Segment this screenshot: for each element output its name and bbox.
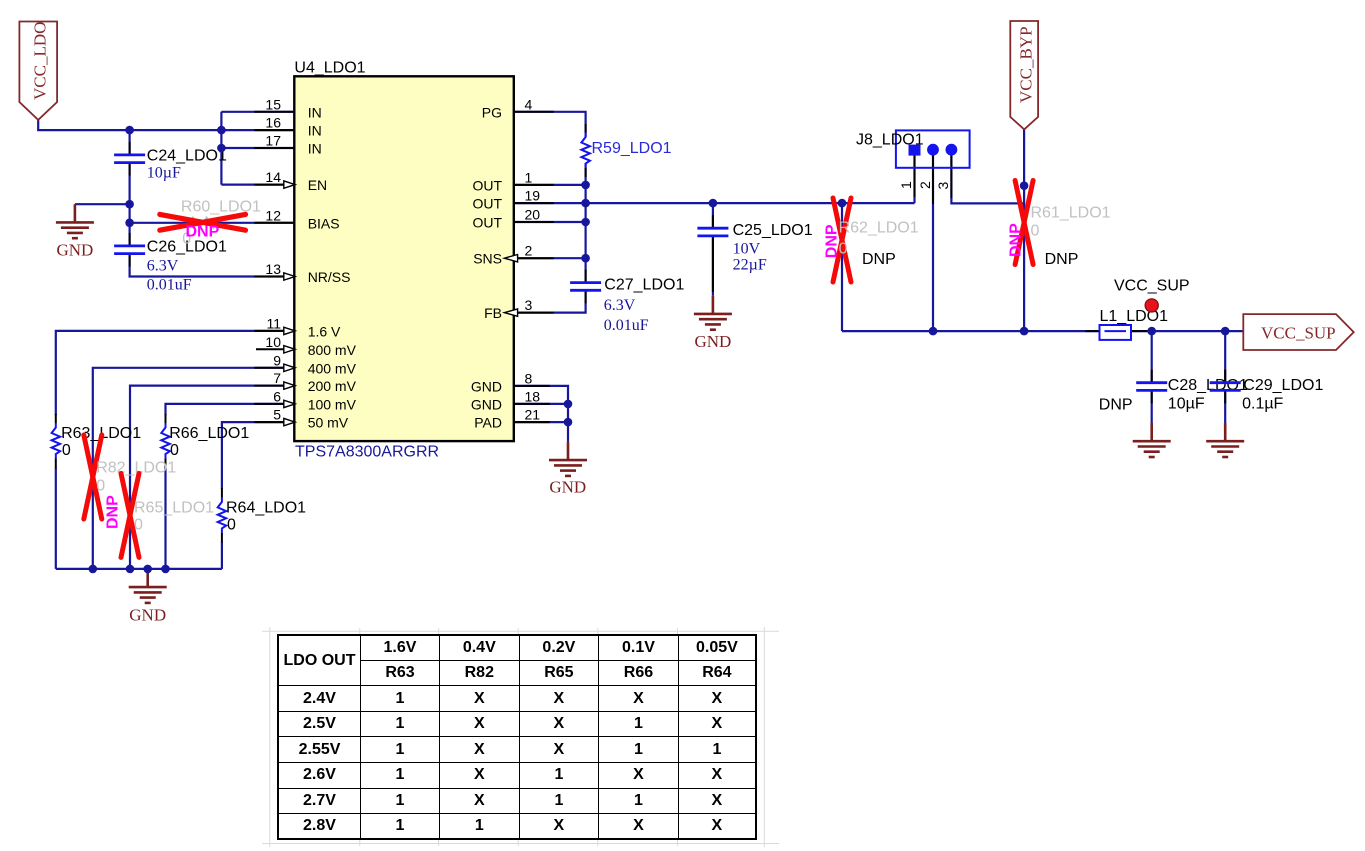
junction dots group bbox=[89, 126, 1230, 573]
svg-text:DNP: DNP bbox=[862, 251, 896, 268]
wire C25 branch bbox=[712, 203, 714, 228]
svg-text:1: 1 bbox=[525, 169, 533, 185]
svg-text:3: 3 bbox=[935, 182, 951, 190]
C29 bottom stub bbox=[1224, 390, 1226, 403]
C26 bottom stub bbox=[129, 254, 131, 267]
ground GND1 top left bbox=[56, 204, 94, 259]
wire pin 9 to R82 column bbox=[93, 368, 294, 569]
wire J8 pin1 stub bbox=[913, 152, 915, 203]
junction IN pin16 bbox=[217, 126, 226, 135]
svg-text:C24_LDO1: C24_LDO1 bbox=[147, 148, 227, 165]
pin numbers left bbox=[265, 96, 281, 422]
black pin stubs bbox=[56, 112, 1225, 543]
junction VCC_BYP / R61 top bbox=[1020, 181, 1029, 190]
R63 bottom stub bbox=[55, 458, 57, 468]
junction OUT pin20 bbox=[581, 218, 590, 227]
junction VCC_SUP / C29 bbox=[1221, 327, 1230, 336]
svg-text:PAD: PAD bbox=[474, 415, 502, 431]
junction OUT pin19 bus bbox=[581, 199, 590, 208]
input arrow pin 2 SNS bbox=[504, 255, 517, 262]
junction gnd bus / R65 bbox=[126, 565, 135, 574]
capacitor C28_LDO1 bbox=[1099, 377, 1248, 413]
svg-text:0.01uF: 0.01uF bbox=[147, 277, 192, 294]
junction IN pin17 bbox=[217, 144, 226, 153]
junction OUT pin1 / R59 bottom bbox=[581, 181, 590, 190]
svg-text:OUT: OUT bbox=[472, 215, 502, 231]
C24 top stub bbox=[129, 142, 131, 155]
svg-text:DNP: DNP bbox=[105, 495, 122, 529]
wire J8 pin2 stub bbox=[932, 152, 934, 331]
svg-text:0.01uF: 0.01uF bbox=[604, 317, 649, 334]
svg-text:12: 12 bbox=[265, 207, 281, 223]
svg-text:GND: GND bbox=[549, 478, 586, 497]
resistor R64_LDO1 bbox=[218, 497, 306, 533]
input arrow pin 9 bbox=[284, 364, 295, 371]
svg-text:GND: GND bbox=[694, 332, 731, 351]
junction BIAS / C26 top bbox=[125, 219, 134, 228]
L1 left stub bbox=[1086, 330, 1100, 332]
svg-text:8: 8 bbox=[525, 370, 533, 386]
wire pin 16 bbox=[221, 129, 294, 131]
svg-text:GND: GND bbox=[471, 396, 502, 412]
wire pin 6 to R66 column bbox=[166, 404, 295, 415]
J8 pin 3 stub bbox=[950, 156, 952, 199]
svg-text:DNP: DNP bbox=[186, 224, 220, 241]
C27 top stub bbox=[585, 270, 587, 283]
svg-text:200 mV: 200 mV bbox=[308, 378, 357, 394]
svg-text:R66_LDO1: R66_LDO1 bbox=[169, 425, 249, 442]
input arrow pin 14 EN bbox=[284, 181, 295, 188]
wire VCC_BYP to R61 to bus bbox=[1023, 129, 1025, 331]
pin 15 stub bbox=[254, 111, 294, 113]
R63 top stub bbox=[55, 414, 57, 423]
junction bottom bus / R61 bottom bbox=[1020, 327, 1029, 336]
svg-text:NR/SS: NR/SS bbox=[308, 269, 351, 285]
svg-text:0: 0 bbox=[134, 517, 143, 534]
input arrow pin 10 bbox=[284, 346, 295, 353]
output arrows right pins SNS FB bbox=[504, 255, 517, 317]
svg-text:SNS: SNS bbox=[473, 251, 502, 267]
pin 14 EN stub bbox=[254, 184, 294, 186]
svg-text:19: 19 bbox=[525, 188, 541, 204]
svg-text:VCC_LDO: VCC_LDO bbox=[31, 22, 50, 100]
svg-text:R65_LDO1: R65_LDO1 bbox=[134, 500, 214, 517]
svg-text:FB: FB bbox=[484, 305, 502, 321]
svg-text:10V: 10V bbox=[733, 241, 761, 258]
pin 1 OUT stub bbox=[514, 184, 554, 186]
pin 18 GND stub bbox=[514, 403, 550, 405]
R59 bottom stub bbox=[585, 168, 587, 177]
svg-text:17: 17 bbox=[265, 133, 281, 149]
junction VCC_LDO / C24 top bbox=[125, 126, 134, 135]
C28 top stub bbox=[1151, 370, 1153, 383]
wire pin 14 EN bbox=[221, 184, 294, 186]
svg-text:13: 13 bbox=[265, 261, 281, 277]
wire pin 1 OUT bbox=[514, 184, 586, 186]
svg-text:7: 7 bbox=[273, 370, 281, 386]
pin names left side bbox=[308, 104, 357, 430]
resistor R61_LDO1 DNP crossed out bbox=[1008, 181, 1111, 269]
ground GND2 below chip bbox=[549, 442, 587, 497]
C24 bottom stub bbox=[129, 163, 131, 176]
svg-text:15: 15 bbox=[265, 96, 281, 112]
pin 19 OUT stub bbox=[514, 202, 554, 204]
svg-text:GND: GND bbox=[56, 241, 93, 260]
junction GND pin18 bbox=[564, 400, 573, 409]
junction gnd bus / GND stem bbox=[143, 565, 152, 574]
svg-text:16: 16 bbox=[265, 115, 281, 131]
pin 7 stub bbox=[254, 385, 294, 387]
chip U4_LDO1 body bbox=[294, 76, 514, 441]
table LDO OUT resistor configuration bbox=[277, 634, 757, 840]
capacitor C26_LDO1 bbox=[114, 239, 227, 294]
svg-text:R61_LDO1: R61_LDO1 bbox=[1031, 205, 1111, 222]
wire C27 to FB pin 3 bbox=[514, 290, 586, 312]
wire pin 21 PAD bbox=[514, 421, 568, 423]
svg-text:10: 10 bbox=[265, 334, 281, 350]
C29 top stub bbox=[1224, 370, 1226, 383]
resistor R63_LDO1 bbox=[52, 423, 142, 459]
wire pin 11 to R63 column bbox=[56, 331, 294, 415]
svg-text:10µF: 10µF bbox=[1168, 396, 1205, 413]
wire pin 18 GND bbox=[514, 403, 568, 405]
svg-text:TPS7A8300ARGRR: TPS7A8300ARGRR bbox=[295, 443, 439, 460]
svg-text:4: 4 bbox=[525, 96, 533, 112]
svg-text:IN: IN bbox=[308, 141, 322, 157]
wire bottom bus R62 to L1 bbox=[842, 330, 1100, 332]
pin 11 stub bbox=[254, 330, 294, 332]
capacitor C27_LDO1 bbox=[570, 277, 684, 335]
pin 12 BIAS stub bbox=[254, 222, 294, 224]
J8 pin 2 stub bbox=[932, 156, 934, 205]
L1 right stub bbox=[1131, 330, 1147, 332]
junction gnd bus / R66 bbox=[161, 565, 170, 574]
power flag VCC_LDO bbox=[19, 22, 57, 120]
svg-text:GND: GND bbox=[471, 378, 502, 394]
svg-text:22µF: 22µF bbox=[733, 257, 767, 274]
wire OUT vertical to C27 bbox=[584, 185, 586, 283]
svg-text:0: 0 bbox=[170, 442, 179, 459]
ground GND3 below C25 bbox=[694, 296, 732, 351]
power flag VCC_SUP (right) bbox=[1243, 314, 1353, 350]
svg-text:DNP: DNP bbox=[824, 224, 841, 258]
resistor R66_LDO1 bbox=[161, 423, 249, 459]
svg-text:1: 1 bbox=[898, 181, 914, 189]
resistor R82_LDO1 DNP crossed out bbox=[84, 435, 177, 529]
svg-text:2: 2 bbox=[917, 181, 933, 189]
junction GND branch / C24 bottom bbox=[125, 200, 134, 209]
wire IN/EN vertical bbox=[220, 112, 222, 185]
connector J8_LDO1 bbox=[856, 130, 970, 189]
svg-text:0: 0 bbox=[62, 442, 71, 459]
wire R62 vertical bbox=[841, 203, 843, 331]
C26 top stub bbox=[129, 233, 131, 246]
svg-text:6: 6 bbox=[273, 388, 281, 404]
resistor R62_LDO1 DNP crossed out bbox=[824, 198, 919, 282]
wire OUT bus pin 19 to J8 pin1 bbox=[514, 202, 915, 204]
input arrow pin 7 bbox=[284, 382, 295, 389]
svg-text:PG: PG bbox=[482, 104, 502, 120]
svg-text:R64_LDO1: R64_LDO1 bbox=[226, 500, 306, 517]
R64 top stub bbox=[221, 488, 223, 498]
C25 top stub bbox=[712, 215, 714, 228]
svg-text:DNP: DNP bbox=[1008, 223, 1025, 257]
R59 top stub bbox=[585, 124, 587, 133]
wire J8 pin3 to R61 bbox=[951, 152, 1024, 203]
wire PG to R59 bbox=[514, 112, 586, 137]
pin 6 stub bbox=[254, 403, 294, 405]
svg-text:BIAS: BIAS bbox=[308, 215, 340, 231]
svg-text:OUT: OUT bbox=[472, 177, 502, 193]
pin 16 stub bbox=[254, 129, 294, 131]
C25 bottom stub bbox=[712, 236, 714, 292]
C28 bottom stub bbox=[1151, 390, 1153, 403]
pin names right side bbox=[471, 104, 503, 430]
svg-text:VCC_SUP: VCC_SUP bbox=[1261, 323, 1336, 342]
svg-text:3: 3 bbox=[525, 297, 533, 313]
pin numbers right bbox=[525, 96, 541, 422]
junction gnd bus / R82 bbox=[89, 565, 98, 574]
R66 top stub bbox=[165, 414, 167, 423]
node VCC_SUP label and red ball bbox=[1114, 278, 1190, 313]
svg-text:EN: EN bbox=[308, 177, 327, 193]
svg-text:400 mV: 400 mV bbox=[308, 360, 357, 376]
wire pin 20 OUT bbox=[514, 221, 586, 223]
svg-text:18: 18 bbox=[525, 388, 541, 404]
wire C24/C26 vertical branch bbox=[129, 130, 131, 155]
svg-text:5: 5 bbox=[273, 407, 281, 423]
junction OUT bus / C25 bbox=[709, 199, 718, 208]
wire VCC_LDO flag to top bus bbox=[38, 120, 221, 130]
svg-text:11: 11 bbox=[266, 315, 281, 331]
input arrow pin 13 NR/SS bbox=[284, 273, 295, 280]
pin 2 SNS stub bbox=[514, 257, 554, 259]
pin 5 stub bbox=[254, 421, 294, 423]
wire pin 2 SNS bbox=[514, 257, 586, 259]
wire C28 branch bbox=[1151, 331, 1153, 383]
svg-text:R62_LDO1: R62_LDO1 bbox=[839, 220, 919, 237]
svg-text:800 mV: 800 mV bbox=[308, 342, 357, 358]
svg-text:U4_LDO1: U4_LDO1 bbox=[294, 60, 365, 77]
wire C29 branch bbox=[1224, 331, 1226, 383]
pin 17 stub bbox=[254, 147, 294, 149]
wire R59 to OUT node bbox=[584, 163, 586, 185]
svg-text:DNP: DNP bbox=[1099, 397, 1133, 414]
svg-text:IN: IN bbox=[308, 104, 322, 120]
svg-text:VCC_SUP: VCC_SUP bbox=[1114, 278, 1190, 295]
wire pin 15 bbox=[221, 111, 294, 113]
ground below C29 bbox=[1206, 423, 1244, 457]
svg-text:R60_LDO1: R60_LDO1 bbox=[181, 199, 261, 216]
capacitor C24_LDO1 bbox=[114, 148, 227, 182]
C27 bottom stub bbox=[585, 290, 587, 303]
wire pin 17 bbox=[221, 147, 294, 149]
svg-text:R82_LDO1: R82_LDO1 bbox=[96, 460, 176, 477]
input arrows left pins bbox=[284, 181, 295, 426]
svg-text:C27_LDO1: C27_LDO1 bbox=[604, 277, 684, 294]
svg-text:9: 9 bbox=[273, 352, 281, 368]
pin 20 OUT stub bbox=[514, 221, 554, 223]
resistor R59_LDO1 bbox=[581, 133, 671, 169]
svg-text:IN: IN bbox=[308, 123, 322, 139]
wire pin 7 to R65 column bbox=[130, 386, 294, 569]
svg-text:14: 14 bbox=[265, 169, 281, 185]
svg-text:L1_LDO1: L1_LDO1 bbox=[1100, 308, 1169, 325]
pin 13 NR/SS stub bbox=[254, 276, 294, 278]
resistor R60_LDO1 DNP crossed out bbox=[160, 199, 261, 248]
svg-text:21: 21 bbox=[525, 407, 541, 423]
svg-text:6.3V: 6.3V bbox=[147, 257, 179, 274]
svg-text:6.3V: 6.3V bbox=[604, 297, 636, 314]
svg-text:20: 20 bbox=[525, 207, 541, 223]
svg-text:10µF: 10µF bbox=[147, 165, 181, 182]
input arrow pin 6 bbox=[284, 400, 295, 407]
pin 10 unconnected stub bbox=[256, 348, 294, 350]
svg-text:1.6 V: 1.6 V bbox=[308, 323, 341, 339]
svg-text:100 mV: 100 mV bbox=[308, 396, 357, 412]
junction SNS / C27 top bbox=[581, 254, 590, 263]
pin 21 PAD stub bbox=[514, 421, 550, 423]
svg-text:C29_LDO1: C29_LDO1 bbox=[1243, 377, 1323, 394]
J8 pin 1 stub bbox=[914, 156, 916, 198]
wire GND1 to branch bbox=[75, 203, 130, 205]
capacitor C25_LDO1 bbox=[697, 222, 812, 274]
junction OUT bus / R62 top bbox=[838, 199, 847, 208]
inductor L1_LDO1 bbox=[1100, 308, 1169, 340]
input arrow pin 11 bbox=[284, 327, 295, 334]
pin 9 stub bbox=[254, 367, 294, 369]
svg-text:VCC_BYP: VCC_BYP bbox=[1017, 26, 1036, 103]
capacitor C29_LDO1 bbox=[1210, 377, 1324, 412]
svg-text:DNP: DNP bbox=[1045, 251, 1079, 268]
junction bottom bus / J8 pin2 bbox=[929, 327, 938, 336]
resistor R65_LDO1 DNP crossed out bbox=[121, 473, 214, 557]
ground below C28 bbox=[1133, 423, 1171, 457]
svg-text:R59_LDO1: R59_LDO1 bbox=[592, 140, 672, 157]
svg-text:0: 0 bbox=[1031, 223, 1040, 240]
wire pin 5 to R64 column bbox=[222, 422, 294, 489]
R64 bottom stub bbox=[221, 533, 223, 543]
svg-text:0.1µF: 0.1µF bbox=[1242, 396, 1283, 413]
wire pin 8 GND bbox=[514, 386, 568, 442]
pin 8 GND stub bbox=[514, 385, 550, 387]
junction PAD pin21 bbox=[564, 418, 573, 427]
junction L1 out / C28 bbox=[1147, 327, 1156, 336]
svg-text:0: 0 bbox=[96, 478, 105, 495]
input arrow pin 3 FB bbox=[504, 309, 517, 316]
svg-text:0: 0 bbox=[227, 517, 236, 534]
pin 3 FB stub bbox=[514, 312, 554, 314]
faint spreadsheet gridlines around table bbox=[262, 627, 779, 847]
power flag VCC_BYP bbox=[1010, 21, 1038, 129]
wire bottom resistor bus bbox=[56, 568, 222, 570]
wire BIAS net bbox=[130, 222, 295, 224]
svg-text:OUT: OUT bbox=[472, 196, 502, 212]
R66 bottom stub bbox=[165, 458, 167, 468]
svg-text:50 mV: 50 mV bbox=[308, 415, 349, 431]
pin 4 PG stub bbox=[514, 111, 554, 113]
ground GND4 bottom left bbox=[129, 569, 167, 625]
svg-text:C25_LDO1: C25_LDO1 bbox=[733, 222, 813, 239]
svg-text:GND: GND bbox=[129, 606, 166, 625]
input arrow pin 5 bbox=[284, 418, 295, 425]
wire L1 to VCC_SUP flag bbox=[1131, 330, 1243, 332]
svg-text:2: 2 bbox=[525, 243, 533, 259]
